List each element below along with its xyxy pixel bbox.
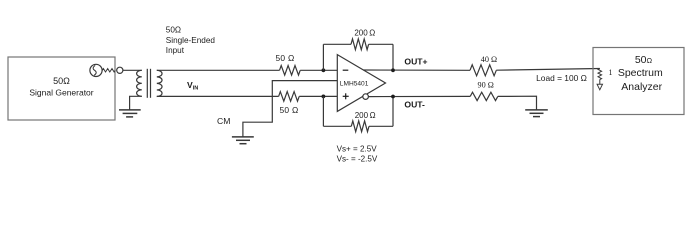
svg-text:LMH5401: LMH5401 [340,81,369,88]
pin minus [343,69,349,71]
node junction dot non-inverting input [322,95,326,99]
transformer core [146,69,148,98]
resistor RG1 50 ohm (top) [280,66,301,76]
inversion bubble OUT- [363,94,369,100]
svg-text:50 Ω: 50 Ω [279,105,298,115]
svg-text:Signal Generator: Signal Generator [29,87,93,97]
svg-text:200 Ω: 200 Ω [354,28,375,37]
node junction dot inverting input [322,68,326,72]
wire 90ohm to ground [498,96,537,110]
op-amp U1 LMH5401 [337,55,385,112]
wire RG1 to amp [300,69,337,71]
resistor RG2 50 ohm (bottom) [279,92,300,102]
resistor RO2 90 ohm [470,92,498,100]
svg-text:OUT-: OUT- [404,100,425,110]
svg-text:90 Ω: 90 Ω [478,80,494,89]
svg-text:50Ω: 50Ω [635,54,653,66]
wire VIN- (bottom input) [157,95,279,97]
pin plus [343,93,349,99]
svg-text:1: 1 [609,68,613,77]
svg-text:50Ω: 50Ω [53,76,70,86]
wire feedback bottom-right vertical [392,97,394,127]
wire OUT+ [363,69,470,71]
resistor RF1 200 ohm (top feedback) [351,39,369,50]
wire CM net [243,81,337,137]
resistor RF2 200 ohm (bottom feedback) [351,121,369,132]
node junction dot OUT+ [391,68,395,72]
svg-text:Single-Ended: Single-Ended [166,36,216,45]
wire feedback bottom rail right [369,125,393,127]
svg-text:Vs+ = 2.5V: Vs+ = 2.5V [337,145,378,154]
svg-text:CM: CM [217,116,230,126]
wire feedback top rail right [369,43,393,45]
wire feedback top-right vertical [392,44,394,70]
wire feedback bottom-left vertical [322,96,324,126]
wire feedback top rail left [323,43,351,45]
source series resistor (50 ohm internal) [102,69,115,72]
ground (CM) [232,137,254,144]
svg-text:50Ω: 50Ω [166,26,181,35]
transformer T1 secondary [157,70,162,96]
ground (primary) [119,110,141,117]
port node circle [117,67,123,73]
svg-text:Analyzer: Analyzer [621,81,662,93]
wire OUT- [368,95,470,97]
AC source V1 [90,64,102,76]
wire feedback bottom rail left [323,125,351,127]
svg-text:Vs- = -2.5V: Vs- = -2.5V [337,154,378,163]
svg-text:OUT+: OUT+ [404,57,427,67]
signal generator box [8,57,115,120]
svg-text:Input: Input [166,46,185,55]
svg-text:200 Ω: 200 Ω [355,111,376,120]
node junction dot OUT- [391,95,395,99]
transformer T1 primary [137,70,142,96]
resistor RO1 40 ohm [470,65,496,76]
analyzer input termination resistor [598,69,602,80]
wire feedback top-left vertical [322,44,324,70]
arrow to internal ground [597,84,602,90]
wire RG2 to amp [299,95,337,97]
svg-text:Spectrum: Spectrum [618,67,663,79]
svg-text:VIN: VIN [187,80,198,91]
wire VIN+ (top input) [157,69,280,71]
wire node to transformer [123,69,142,71]
ground (OUT- termination) [525,110,548,117]
svg-text:50 Ω: 50 Ω [275,53,294,63]
spectrum analyzer box [593,48,684,115]
wire primary bottom to ground [130,96,142,109]
wire 40ohm to analyzer [496,69,600,71]
svg-text:40 Ω: 40 Ω [481,55,497,64]
svg-text:Load = 100 Ω: Load = 100 Ω [536,73,587,83]
